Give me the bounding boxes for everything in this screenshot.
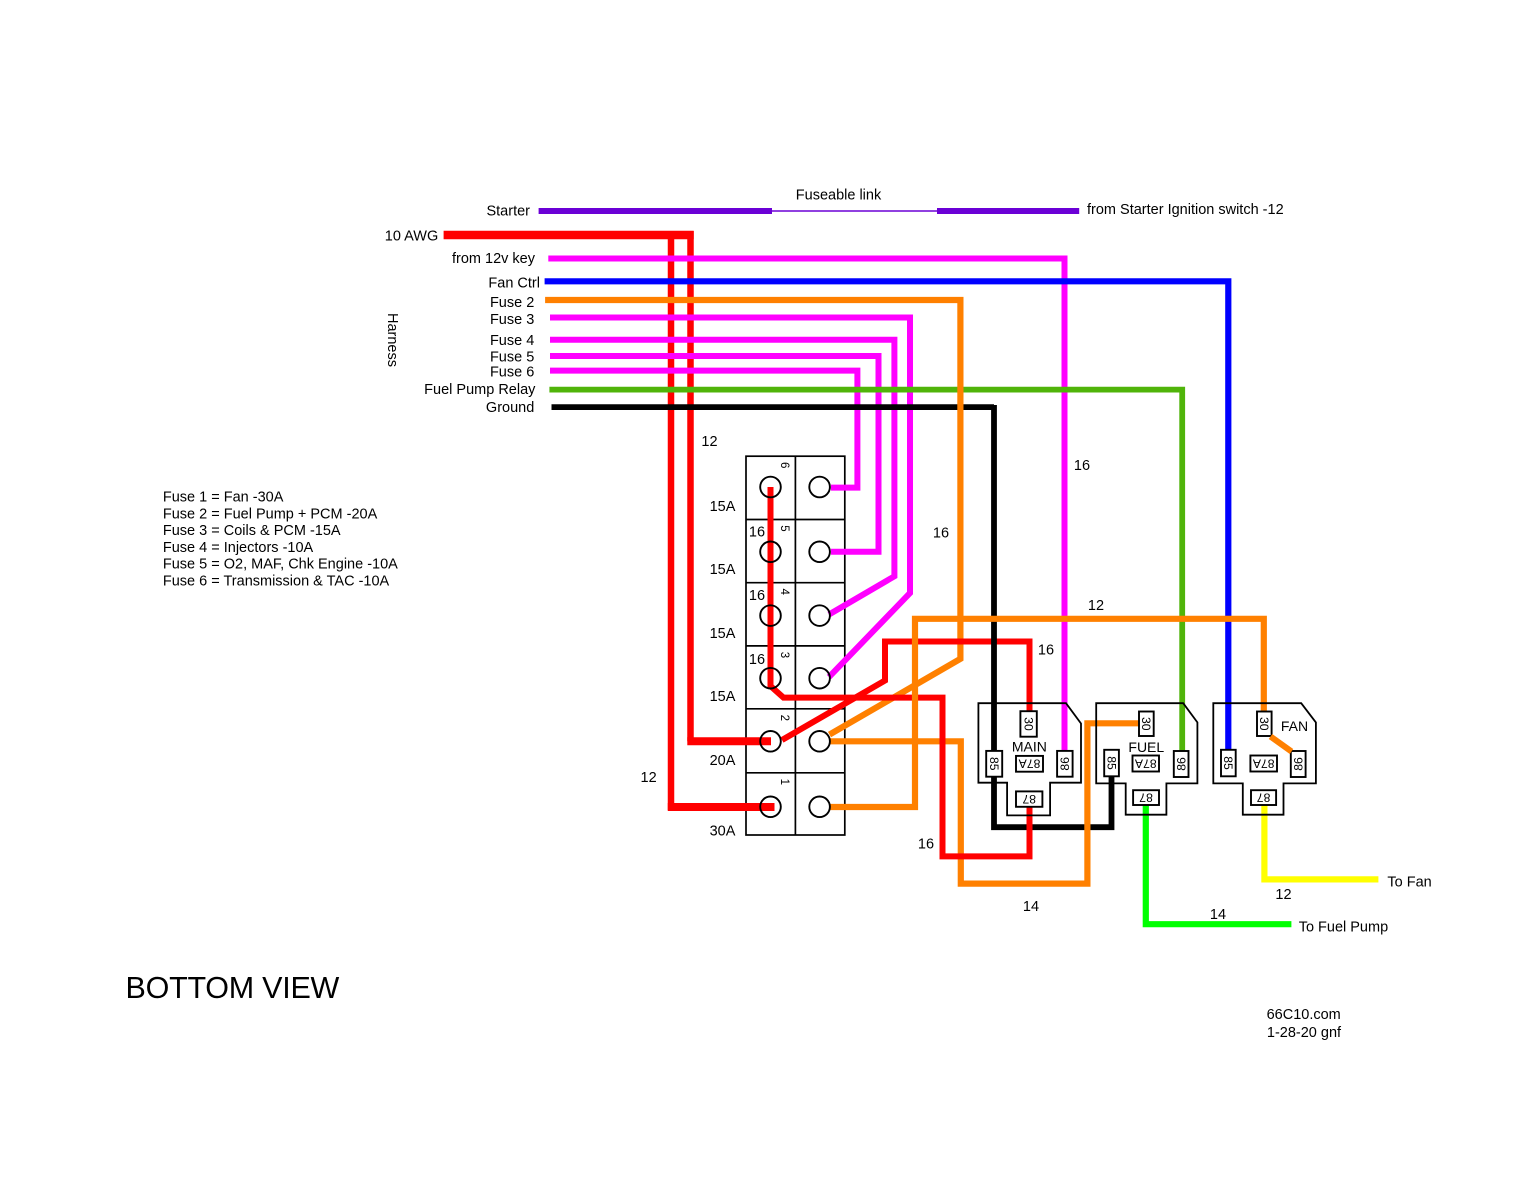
svg-text:from 12v key: from 12v key <box>452 251 536 267</box>
relay FAN outline <box>1213 703 1316 815</box>
svg-text:FAN: FAN <box>1281 718 1308 734</box>
wire: green FUEL 87 to fuel pump <box>1146 805 1292 924</box>
svg-text:MAIN: MAIN <box>1012 739 1047 755</box>
svg-text:16: 16 <box>1038 643 1054 659</box>
svg-text:87A: 87A <box>1018 757 1041 771</box>
svg-text:86: 86 <box>1058 757 1072 771</box>
svg-text:12: 12 <box>1088 598 1104 614</box>
relay FAN pin 87 <box>1251 790 1276 805</box>
relay FAN pin 87A <box>1250 756 1277 772</box>
svg-text:2: 2 <box>778 715 790 721</box>
wire: red 12ga feed to fuse 1 (30A) <box>671 231 775 807</box>
svg-text:66C10.com: 66C10.com <box>1267 1007 1341 1023</box>
wire: Fuse 6 magenta to fuse6 right terminal <box>550 371 857 488</box>
svg-text:85: 85 <box>1221 756 1235 770</box>
svg-text:30: 30 <box>1021 717 1035 731</box>
svg-text:16: 16 <box>749 588 765 604</box>
svg-text:87: 87 <box>1139 790 1153 804</box>
svg-text:Fuel Pump Relay: Fuel Pump Relay <box>424 382 536 398</box>
svg-text:20A: 20A <box>710 753 736 769</box>
svg-text:Fuse 6: Fuse 6 <box>490 365 534 381</box>
fuse 5 right terminal <box>809 542 830 563</box>
svg-text:12: 12 <box>641 770 657 786</box>
svg-text:Fuse 1 = Fan -30A: Fuse 1 = Fan -30A <box>163 490 284 506</box>
relay FUEL outline <box>1096 703 1197 815</box>
svg-text:30: 30 <box>1139 717 1153 731</box>
wire: Fuse 2 orange drop to fuse2 right terminal <box>545 300 960 735</box>
svg-text:16: 16 <box>749 652 765 668</box>
wire: ground black drop through MAIN 85 to FUEL 85 <box>994 405 1112 827</box>
svg-text:10 AWG: 10 AWG <box>385 228 438 244</box>
svg-text:15A: 15A <box>710 562 736 578</box>
svg-text:To Fuel Pump: To Fuel Pump <box>1299 919 1388 935</box>
relay MAIN pin 85 <box>986 751 1002 777</box>
wire: from 12v key magenta to MAIN 86 <box>548 259 1064 751</box>
svg-text:BOTTOM VIEW: BOTTOM VIEW <box>126 971 340 1005</box>
fuse 5 left terminal <box>760 542 781 563</box>
svg-text:16: 16 <box>918 837 934 853</box>
svg-text:87A: 87A <box>1252 756 1275 770</box>
relay MAIN pin 30 <box>1020 711 1036 737</box>
wire: orange jumper FAN 30 to FAN 86 <box>1271 737 1292 752</box>
svg-text:12: 12 <box>701 434 717 450</box>
svg-text:87: 87 <box>1022 792 1036 806</box>
fuse 3 right terminal <box>809 668 830 689</box>
svg-text:30: 30 <box>1257 717 1271 731</box>
svg-text:85: 85 <box>987 757 1001 771</box>
relay FUEL pin 87A <box>1133 756 1160 772</box>
wire: Fuse 4 magenta to fuse4 right terminal <box>550 340 894 615</box>
svg-text:14: 14 <box>1210 907 1226 923</box>
svg-text:1: 1 <box>778 779 790 785</box>
svg-text:FUEL: FUEL <box>1128 739 1164 755</box>
svg-text:1-28-20 gnf: 1-28-20 gnf <box>1267 1025 1342 1041</box>
fuse 2 right terminal <box>809 731 830 752</box>
wire: starter purple segment B <box>937 208 1079 214</box>
svg-text:16: 16 <box>1074 458 1090 474</box>
wire: orange fuse1 right terminal to FAN 30 <box>829 619 1264 807</box>
svg-text:14: 14 <box>1023 899 1039 915</box>
svg-text:15A: 15A <box>710 626 736 642</box>
svg-text:To Fan: To Fan <box>1387 875 1431 891</box>
wire: red from fuse2 left terminal to MAIN 30 <box>782 642 1030 741</box>
svg-text:Starter: Starter <box>486 204 530 220</box>
svg-text:Fuse 2 = Fuel Pump + PCM -20A: Fuse 2 = Fuel Pump + PCM -20A <box>163 506 378 522</box>
svg-text:Fuse 6 = Transmission & TAC -1: Fuse 6 = Transmission & TAC -10A <box>163 574 390 590</box>
svg-text:4: 4 <box>778 588 790 595</box>
wire: red fuse link fuse6-fuse5-fuse4-fuse3 and on to MAIN 87 <box>771 487 1030 856</box>
svg-text:Fuse 3 = Coils & PCM -15A: Fuse 3 = Coils & PCM -15A <box>163 523 341 539</box>
svg-text:30A: 30A <box>710 824 736 840</box>
svg-text:3: 3 <box>778 652 790 658</box>
svg-text:from Starter Ignition switch -: from Starter Ignition switch -12 <box>1087 202 1284 218</box>
relay FUEL pin 30 <box>1139 712 1154 737</box>
svg-text:Harness: Harness <box>384 313 400 367</box>
relay MAIN pin 86 <box>1057 751 1073 777</box>
fuse 4 left terminal <box>760 605 781 626</box>
fuse 4 right terminal <box>809 605 830 626</box>
svg-text:15A: 15A <box>710 689 736 705</box>
relay MAIN outline <box>978 703 1081 815</box>
svg-text:Fuse 5 = O2, MAF, Chk Engine -: Fuse 5 = O2, MAF, Chk Engine -10A <box>163 557 398 573</box>
svg-text:Fuse 4: Fuse 4 <box>490 333 534 349</box>
wire: red 12ga feed to fuse 2 (20A) <box>687 231 694 741</box>
fuse 2 left terminal <box>760 731 781 752</box>
svg-text:16: 16 <box>933 526 949 542</box>
fuse 1 right terminal <box>809 797 830 818</box>
fuse 3 left terminal <box>760 668 781 689</box>
svg-text:16: 16 <box>749 525 765 541</box>
wire: Fuse 3 magenta to fuse3 right terminal <box>550 318 910 678</box>
wire: orange fuse2 right terminal to FUEL 30 <box>829 723 1139 883</box>
svg-text:6: 6 <box>778 462 790 468</box>
svg-text:Fuse 5: Fuse 5 <box>490 350 534 366</box>
relay FUEL pin 86 <box>1174 751 1189 777</box>
wire: Fuse 5 magenta to fuse5 right terminal <box>550 356 879 552</box>
svg-text:5: 5 <box>778 525 790 531</box>
svg-text:Fan Ctrl: Fan Ctrl <box>488 276 540 292</box>
relay FUEL pin 85 <box>1104 750 1119 777</box>
wire: 10 AWG red feed horizontal <box>444 231 694 240</box>
svg-text:87A: 87A <box>1134 756 1157 770</box>
svg-text:Fuse 4 = Injectors -10A: Fuse 4 = Injectors -10A <box>163 540 314 556</box>
relay MAIN pin 87 <box>1016 791 1042 806</box>
fuse 6 left terminal <box>760 477 781 498</box>
svg-text:86: 86 <box>1174 757 1188 771</box>
fuse block outline <box>746 456 845 835</box>
svg-text:Fuseable link: Fuseable link <box>796 188 882 204</box>
svg-text:12: 12 <box>1275 887 1291 903</box>
svg-text:85: 85 <box>1104 756 1118 770</box>
relay FAN pin 85 <box>1221 750 1236 777</box>
wire: starter purple segment A <box>539 208 772 214</box>
wire: yellow FAN 87 to fan <box>1264 805 1378 879</box>
relay FAN pin 86 <box>1291 751 1306 777</box>
svg-text:Fuse 3: Fuse 3 <box>490 312 534 328</box>
svg-text:Fuse 2: Fuse 2 <box>490 295 534 311</box>
relay FUEL pin 87 <box>1133 790 1159 805</box>
svg-text:Ground: Ground <box>486 400 534 416</box>
wire: Ground black harness horizontal <box>552 404 995 410</box>
wire: Fan Ctrl blue to FAN 85 <box>545 281 1229 750</box>
relay MAIN pin 87A <box>1016 756 1043 772</box>
wire: Fuel Pump Relay green to FUEL 86 <box>549 390 1182 751</box>
svg-text:15A: 15A <box>710 499 736 515</box>
fuse 1 left terminal <box>760 797 781 818</box>
fuse 6 right terminal <box>809 477 830 498</box>
svg-text:86: 86 <box>1291 757 1305 771</box>
relay FAN pin 30 <box>1257 712 1272 737</box>
svg-text:87: 87 <box>1257 790 1271 804</box>
wire: fuseable link thin segment <box>772 210 937 212</box>
